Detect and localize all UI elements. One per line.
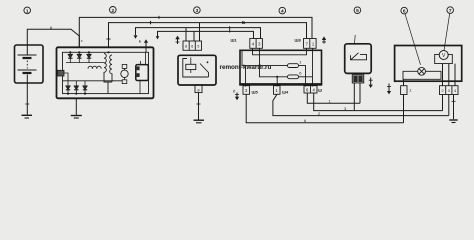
leader line to voltmeter [444,13,450,50]
voltmeter frame [435,54,453,63]
connector arrow (from line3, down) [134,33,138,39]
cluster ground stem [453,95,455,120]
block internal fuse1 line [246,66,288,87]
wire bus2 [109,23,307,48]
relay contact blade [200,64,209,78]
wire battery positive to alternator [27,29,79,47]
ignition switch contact [351,53,367,60]
stator winding zigzag A [104,54,112,83]
ignition switch leader line [354,35,357,44]
svg-text:Ш5: Ш5 [252,90,259,95]
svg-text:2: 2 [111,8,114,14]
node 2 callout circle [110,7,117,14]
relay K box [178,55,216,85]
relay pin digits [185,45,199,49]
fuse F1 [288,64,299,68]
mounting block bottom thick edge [239,83,322,85]
node 4 callout circle [279,7,286,14]
fuse F6 [288,75,299,79]
block internal stub [242,50,246,65]
connector pins 6,4 bottom [304,86,317,93]
diode VD4 [66,81,70,94]
svg-text:Ш4: Ш4 [282,90,289,95]
rotor brush top [122,64,127,68]
ground (alternator) [71,116,82,119]
svg-text:Ш8: Ш8 [295,38,302,43]
wire bus1 (top) [79,17,312,47]
ignition switch box [345,44,372,74]
ignition connector terminals [353,76,362,82]
regulator output lead [139,81,141,94]
block wire fuse6 to pin1 vertical [299,76,313,78]
node 1 callout circle [24,7,31,14]
mounting block box [240,50,322,84]
svg-text:3: 3 [448,89,450,93]
bus1 tick [158,16,160,19]
instrument cluster box [395,46,462,82]
battery top lead [26,45,28,55]
cluster pin 1 [401,86,407,95]
svg-text:4: 4 [281,9,284,15]
wire line4 relay to block [158,31,254,38]
rail lower [63,80,122,82]
cluster wire A [442,64,444,86]
junction dot fuse line [276,76,278,78]
alternator G box [57,47,154,98]
bus2 junction tick [150,21,152,24]
svg-text:5: 5 [356,8,359,14]
regulator terminal squares [137,66,140,77]
battery bottom lead to ground [26,75,28,115]
connector arrow (right of switch) [369,78,373,89]
node dots on rectifier top rail [69,51,109,53]
block wire to pin1 bottom [276,77,278,87]
relay ground wire [198,93,200,120]
rotor brush bottom [122,80,127,84]
diode VD2 [77,52,81,62]
rotor leads [124,68,126,79]
svg-text:1: 1 [26,8,29,14]
svg-text:6: 6 [191,45,193,49]
svg-text:Ш1: Ш1 [231,38,238,43]
wire relay pin85 up [185,28,187,41]
cluster pins 2,3,4 [440,86,459,95]
stator field coil [88,66,101,69]
alternator ground lead [75,98,77,115]
wire pin3 to cluster pin1 [246,94,403,123]
ground (battery) [22,115,33,118]
node 6 callout circle [401,7,408,14]
alternator D+ lead entering [145,47,147,52]
diode VD6 [83,81,87,94]
battery lead tick [25,103,29,105]
diode VD3 [87,52,91,62]
node 7 callout circle [447,7,454,14]
svg-text:6: 6 [403,9,406,15]
relay contact dot [207,61,209,63]
connector arrow (left of cluster) [387,84,391,95]
relay coil leads [190,58,192,74]
wire cluster pinA down [442,95,444,111]
stator winding zigzag B [108,55,112,94]
connector arrow (left of relay pins) [175,36,179,44]
battery internal dashed link [26,61,28,69]
regulator box inside alternator [136,65,149,81]
connector arrow (right of block) [322,36,326,43]
svg-text:Ш: Ш [318,88,322,93]
node 3 callout circle [194,7,201,14]
svg-text:5: 5 [197,45,199,49]
diode VD1 [68,52,72,62]
battery cell 2 [18,70,37,73]
block internal wire pins4-7 [253,48,307,55]
cluster wire B [448,64,450,86]
cluster lamp wire down [403,79,405,86]
svg-text:2: 2 [442,89,444,93]
wire pin6 to ignition [307,93,360,103]
svg-text:7: 7 [449,8,452,14]
relay top connector pins [183,41,202,50]
wire line3 to relay and block [136,28,261,39]
wire pin1 to cluster [273,94,449,115]
node dots on rectifier bottom rail [67,93,86,95]
connector arrow (below label b) [235,93,239,101]
relay core bracket [183,59,209,78]
connector pins 7,1 top [304,39,317,49]
leader line to lamp [405,14,421,65]
relay bottom connector pin [195,85,202,93]
battery GB box [15,45,44,83]
svg-text:4: 4 [454,89,456,93]
svg-text:x: x [81,39,83,43]
brush terminal block [58,70,65,76]
ground (relay) [194,120,205,123]
brush terminal wire [64,73,68,81]
B+ terminal tick [106,38,110,40]
connector arrow (alternator D+, up) [144,39,148,47]
relay coil [186,64,196,69]
wire cluster pinB down [448,95,450,116]
cluster wire C [454,64,456,86]
ignition wire left down [353,83,355,111]
ground (cluster) [449,120,457,123]
wire label tick (+) [50,27,52,30]
regulator input leads [140,61,142,65]
connector pins 4,3 top [250,39,263,49]
svg-text:3: 3 [196,8,199,14]
relay ground wire tick [197,103,201,105]
line3/line4 crossing tick [229,26,231,32]
warning lamp frame [403,71,441,79]
rail mid [66,62,104,64]
ignition connector housing [352,75,363,83]
connector pin 3 bottom [243,86,250,95]
diode VD5 [74,81,78,94]
connector pin 1 bottom [274,86,281,95]
alternator rectifier inner box [63,52,149,93]
block internal wire pin3 down [260,48,288,77]
svg-text:8: 8 [185,45,187,49]
node 5 callout circle [354,7,361,14]
wire cluster pin1 down [403,95,405,123]
block internal wire pin1top down to pin4bottom [312,48,314,86]
cluster ground tick [452,100,456,102]
battery cell 1 [18,55,37,58]
wire relay pin86 up [193,31,195,41]
wire pin4 to cluster [314,93,443,111]
block wire fuse1 to pin6 bottom [299,66,306,87]
voltmeter circle [439,51,448,60]
rotor circle [121,70,128,77]
wire relay pin30 up to bus2 [199,23,201,41]
warning lamp [418,67,426,75]
ignition wire right down [359,83,361,103]
